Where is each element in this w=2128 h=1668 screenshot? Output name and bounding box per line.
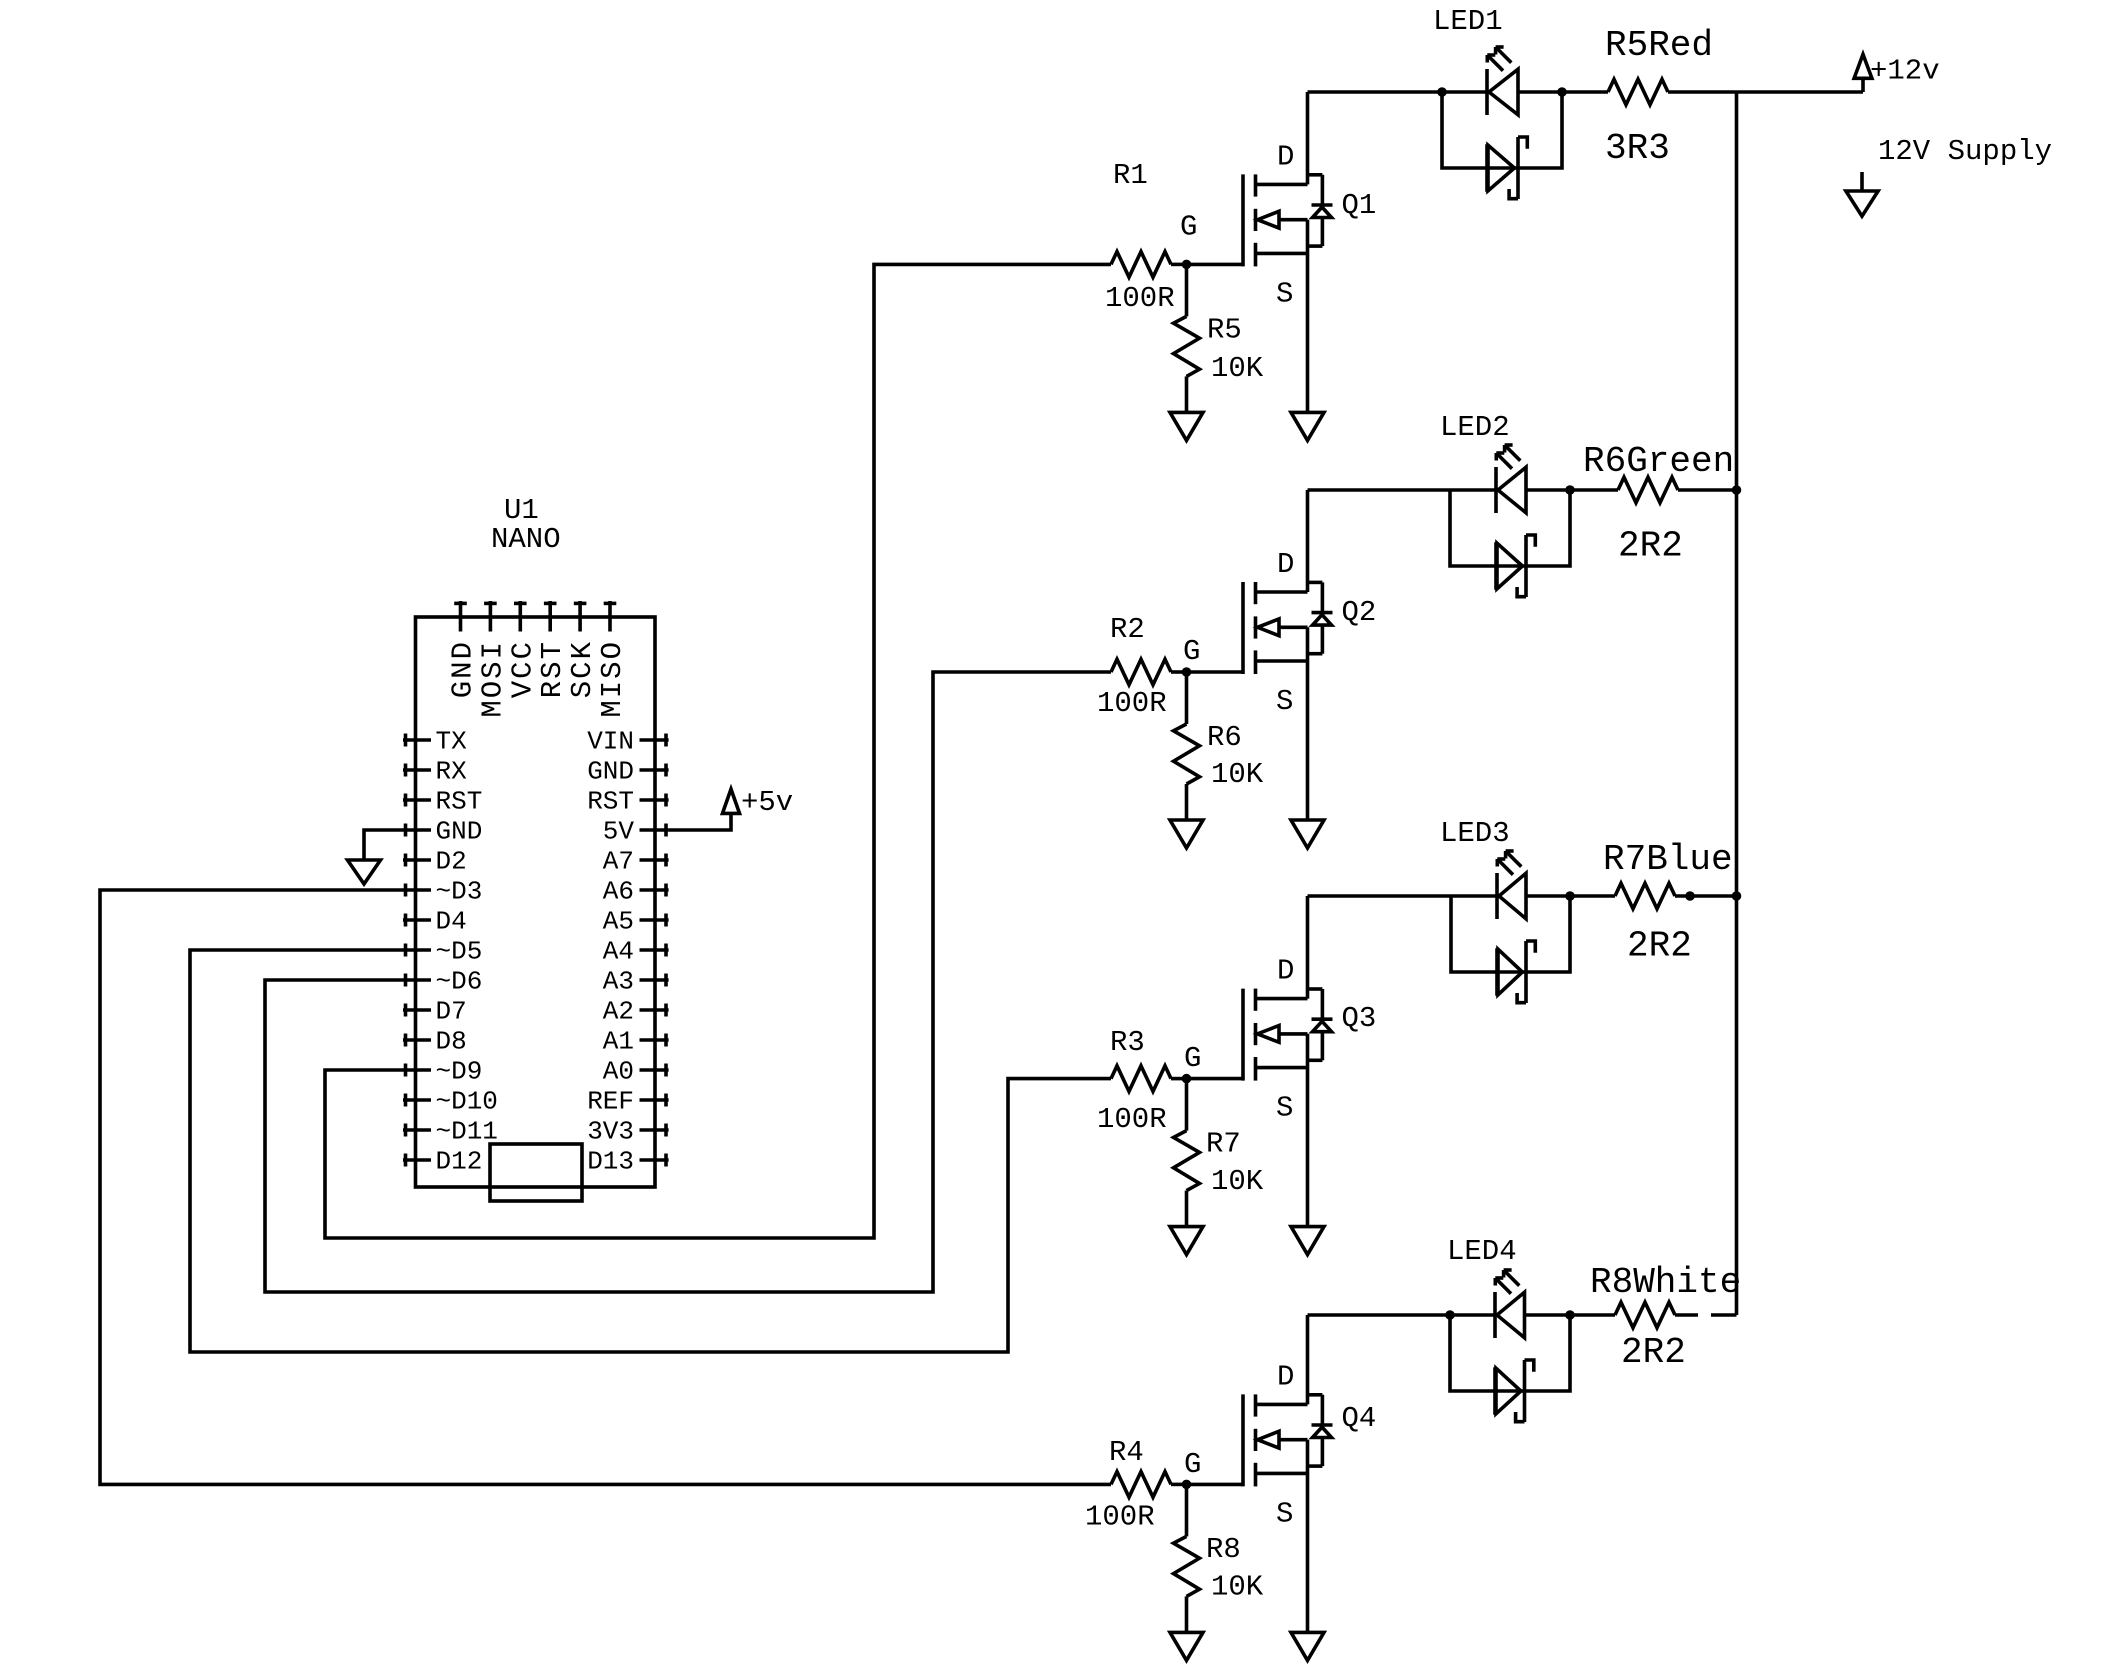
wire Q3 source to ground [1306,1034,1310,1227]
wire LED2 top to right node [1526,488,1570,492]
svg-text:MOSI: MOSI [476,640,509,718]
wire R1 to node G [1171,263,1187,267]
pin MISO (U1 top pin 6) [596,601,629,718]
node (junction at 1690,896) [1685,891,1695,901]
label +5v [741,786,793,819]
wire LED1 loop bottom [1487,166,1518,170]
wire LED3 split to cathode [1451,894,1497,898]
svg-text:A5: A5 [603,907,634,937]
wire LED2 loop left [1450,490,1496,566]
pin D12 (U1 left pin 15) [403,1147,482,1177]
svg-text:D8: D8 [436,1027,467,1057]
resistor R4 100R (gate) [1111,1472,1171,1498]
IC U1 reference label [504,494,539,527]
ground (Q3 source) [1291,1227,1324,1255]
label S (Q1 source) [1276,277,1293,310]
resistor R8 10K (pulldown) [1174,1536,1200,1596]
node (junction at 1450,1315) [1445,1310,1455,1320]
svg-text:G: G [1184,1448,1201,1481]
wire LED4 loop right [1525,1315,1571,1391]
ground (Q2 source) [1291,820,1324,848]
pin ~D3 (U1 left pin 6) [403,877,482,907]
wire LED1 row left [1308,90,1443,94]
wire R4 to node G [1171,1483,1187,1487]
pin SCK (U1 top pin 5) [566,601,599,698]
pin GND (U1 left pin 4) [403,817,482,847]
node (junction at 1570,896) [1565,891,1575,901]
wire LED1 top to right node [1518,90,1562,94]
node (junction at 1736.5,490) [1732,485,1742,495]
svg-text:100R: 100R [1105,282,1175,315]
wire 12V supply ground stub [1860,172,1864,191]
label 100R (R1 value) [1105,282,1175,315]
label R8 [1206,1533,1241,1566]
resistor R6 10K (pulldown) [1174,724,1200,784]
label 100R (R2 value) [1097,687,1167,720]
node (junction at 1562,92) [1557,87,1567,97]
label 10K (R8 value) [1211,1571,1264,1604]
svg-text:SCK: SCK [566,640,599,698]
pin RST (U1 top pin 4) [536,601,569,698]
wire G node to Q1 gate [1187,263,1244,267]
IC U1 NANO body [416,617,656,1187]
wire LED3 row left [1308,894,1452,898]
label 2R2 (R6Green value) [1618,526,1683,567]
resistor R5Red (series) [1608,79,1668,105]
svg-text:D13: D13 [587,1147,634,1177]
pin 3V3 (U1 right pin 14) [587,1117,668,1147]
pin D13 (U1 right pin 15) [587,1147,668,1177]
ground (12V supply) [1846,191,1878,216]
wire LED4 node to R8White [1570,1313,1615,1317]
pin ~D5 (U1 left pin 8) [403,937,482,967]
wire G node down to R7 [1185,1079,1189,1131]
label G (Q1 gate) [1180,210,1197,243]
wire LED3 loop right [1526,896,1570,972]
svg-text:LED1: LED1 [1433,5,1503,38]
resistor R5 10K (pulldown) [1174,316,1200,376]
svg-text:D: D [1277,1360,1294,1393]
wire ~D9 to R1 (net D9) [325,264,1111,1238]
transistor Q4 (N-MOSFET) [1243,1394,1333,1486]
svg-text:R6Green: R6Green [1583,441,1734,482]
svg-text:+5v: +5v [741,786,793,819]
wire R5Red to +12v [1668,90,1863,94]
wire G node to Q2 gate [1187,670,1244,674]
svg-text:A0: A0 [603,1057,634,1087]
svg-text:R7: R7 [1206,1128,1241,1161]
svg-text:3R3: 3R3 [1605,128,1670,169]
transistor Q2 (N-MOSFET) [1243,582,1333,674]
wire LED3 node to R7Blue [1570,894,1615,898]
svg-text:REF: REF [587,1087,634,1117]
wire LED2 loop right [1526,490,1570,566]
svg-text:R7Blue: R7Blue [1603,839,1733,880]
svg-text:NANO: NANO [491,523,561,556]
node G (gate of Q1) [1182,260,1192,270]
wire LED3 loop left [1451,896,1497,972]
svg-text:+12v: +12v [1870,54,1940,87]
label 3R3 (R5Red value) [1605,128,1670,169]
pin ~D10 (U1 left pin 13) [403,1087,498,1117]
label R3 [1110,1026,1145,1059]
IC U1 value label NANO [491,523,561,556]
label G (Q3 gate) [1184,1042,1201,1075]
svg-text:Q2: Q2 [1342,596,1377,629]
label R6 [1207,721,1242,754]
label D (Q4 drain) [1277,1360,1294,1393]
LED LED2B (bottom, reversed) [1496,535,1535,597]
svg-text:GND: GND [436,817,483,847]
wire to +12v arrow [1861,78,1865,92]
wire G node to Q3 gate [1187,1077,1244,1081]
label Q4 [1342,1402,1377,1435]
wire G node down to R6 [1185,672,1189,724]
svg-text:A2: A2 [603,997,634,1027]
pin ~D11 (U1 left pin 14) [403,1117,498,1147]
label R2 [1110,613,1145,646]
pin VCC (U1 top pin 3) [506,601,539,698]
svg-text:A4: A4 [603,937,634,967]
svg-text:R2: R2 [1110,613,1145,646]
svg-text:S: S [1276,1497,1293,1530]
node (junction at 1442,92) [1437,87,1447,97]
svg-text:~D10: ~D10 [436,1087,498,1117]
svg-text:~D3: ~D3 [436,877,483,907]
pin RST (U1 left pin 3) [403,787,482,817]
label R4 [1109,1436,1144,1469]
svg-text:RST: RST [587,787,634,817]
svg-text:R1: R1 [1113,159,1148,192]
svg-text:R8: R8 [1206,1533,1241,1566]
wire LED2 split to cathode [1450,488,1496,492]
wire U1 5V pin to +5v [669,813,731,830]
svg-text:10K: 10K [1211,1571,1264,1604]
wire Q4 source to ground [1306,1440,1310,1633]
svg-text:LED4: LED4 [1447,1235,1517,1268]
label 100R (R4 value) [1085,1501,1155,1534]
svg-text:D: D [1277,548,1294,581]
pin GND (U1 top pin 1) [447,601,480,698]
svg-text:A7: A7 [603,847,634,877]
svg-text:~D11: ~D11 [436,1117,498,1147]
svg-text:S: S [1276,1092,1293,1125]
resistor R8White (series) [1615,1302,1675,1328]
ground (R7) [1170,1227,1203,1255]
wire Q1 source to ground [1306,220,1310,413]
svg-text:5V: 5V [603,817,635,847]
wire R8 to ground [1185,1596,1189,1632]
svg-text:RX: RX [436,757,468,787]
node (junction at 1736.5,896) [1732,891,1742,901]
label LED4 [1447,1235,1517,1268]
wire Q4 drain up to LED4 row [1306,1315,1310,1404]
label D (Q1 drain) [1277,140,1294,173]
wire LED4 split to cathode [1450,1313,1495,1317]
wire U1 GND pin to ground [364,830,403,860]
svg-text:3V3: 3V3 [587,1117,634,1147]
svg-text:VIN: VIN [587,727,634,757]
pin A4 (U1 right pin 8) [603,937,669,967]
svg-text:R8White: R8White [1590,1262,1741,1303]
svg-text:10K: 10K [1211,352,1264,385]
label R8White [1590,1262,1741,1303]
LED LED4A (top, cathode left) [1495,1270,1525,1338]
svg-text:10K: 10K [1211,1165,1264,1198]
svg-text:~D9: ~D9 [436,1057,483,1087]
label R7Blue [1603,839,1733,880]
pin A0 (U1 right pin 12) [603,1057,669,1087]
LED LED2A (top, cathode left) [1496,445,1526,513]
svg-text:G: G [1183,635,1200,668]
label 10K (R6 value) [1211,758,1264,791]
svg-text:R3: R3 [1110,1026,1145,1059]
label R6Green [1583,441,1734,482]
label +12v [1870,54,1940,87]
pin MOSI (U1 top pin 2) [476,601,509,718]
wire +12v bus vertical [1735,92,1739,1315]
wire LED1 node to R5Red [1562,90,1608,94]
svg-text:S: S [1276,685,1293,718]
svg-text:MISO: MISO [596,640,629,718]
wire R6 to ground [1185,784,1189,820]
pin VIN (U1 right pin 1) [587,727,668,757]
wire G node down to R5 [1185,264,1189,316]
wire LED1 loop left [1442,92,1487,168]
wire ~D5 to R3 (net D5) [190,950,1111,1352]
svg-text:100R: 100R [1085,1501,1155,1534]
svg-text:100R: 100R [1097,1103,1167,1136]
pin D7 (U1 left pin 10) [403,997,467,1027]
label 100R (R3 value) [1097,1103,1167,1136]
wire Q2 drain up to LED2 row [1306,490,1310,592]
IC U1 USB connector rectangle [490,1144,582,1201]
pin A3 (U1 right pin 9) [603,967,669,997]
transistor Q1 (N-MOSFET) [1243,174,1333,266]
label R5 [1207,314,1242,347]
ground (R6) [1170,820,1203,848]
label Q2 [1342,596,1377,629]
resistor R6Green (series) [1618,477,1678,503]
label 10K (R5 value) [1211,352,1264,385]
svg-text:Q3: Q3 [1342,1002,1377,1035]
svg-text:D7: D7 [436,997,467,1027]
label Q3 [1342,1002,1377,1035]
label G (Q4 gate) [1184,1448,1201,1481]
svg-text:S: S [1276,277,1293,310]
svg-text:G: G [1180,210,1197,243]
wire G node down to R8 [1185,1484,1189,1536]
wire LED3 loop bottom [1497,970,1526,974]
label 12V Supply [1878,135,2052,168]
label D (Q2 drain) [1277,548,1294,581]
pin 5V (U1 right pin 4) [603,817,669,847]
svg-text:VCC: VCC [506,640,539,698]
svg-text:R4: R4 [1109,1436,1144,1469]
pin GND (U1 right pin 2) [587,757,668,787]
svg-text:GND: GND [587,757,634,787]
pin D8 (U1 left pin 11) [403,1027,467,1057]
LED LED1A (top, cathode left) [1487,47,1518,115]
LED LED1B (bottom, reversed) [1487,137,1527,199]
svg-text:A3: A3 [603,967,634,997]
wire LED4 row left [1308,1313,1451,1317]
ground (Q4 source) [1291,1632,1324,1660]
label S (Q2 source) [1276,685,1293,718]
ground (R5) [1170,412,1203,440]
svg-text:12V Supply: 12V Supply [1878,135,2052,168]
svg-text:G: G [1184,1042,1201,1075]
wire LED1 split to cathode [1442,90,1487,94]
label R1 [1113,159,1148,192]
resistor R2 100R (gate) [1111,659,1171,685]
wire LED4 loop left [1450,1315,1495,1391]
label D (Q3 drain) [1277,955,1294,988]
wire LED4 loop bottom [1495,1389,1525,1393]
svg-text:2R2: 2R2 [1627,926,1692,967]
wire ~D6 to R2 (net D6) [265,672,1111,1292]
resistor R1 100R (gate) [1111,252,1171,278]
label R7 [1206,1128,1241,1161]
svg-text:RST: RST [436,787,483,817]
svg-text:D: D [1277,140,1294,173]
LED LED4B (bottom, reversed) [1495,1360,1534,1422]
pin A7 (U1 right pin 5) [603,847,669,877]
wire LED4 top to right node [1525,1313,1571,1317]
node G (gate of Q4) [1182,1480,1192,1490]
pin ~D6 (U1 left pin 9) [403,967,482,997]
wire LED2 node to R6Green [1570,488,1618,492]
wire LED1 loop right [1518,92,1562,168]
pin A5 (U1 right pin 7) [603,907,669,937]
pin A2 (U1 right pin 10) [603,997,669,1027]
pin TX (U1 left pin 1) [403,727,467,757]
wire G node to Q4 gate [1187,1483,1244,1487]
svg-text:TX: TX [436,727,468,757]
pin REF (U1 right pin 13) [587,1087,668,1117]
wire LED3 top to right node [1526,894,1570,898]
pin RST (U1 right pin 3) [587,787,668,817]
node (junction at 1570,490) [1565,485,1575,495]
label S (Q3 source) [1276,1092,1293,1125]
svg-text:D12: D12 [436,1147,483,1177]
wire R7 to ground [1185,1191,1189,1227]
wire R3 to node G [1171,1077,1187,1081]
node G (gate of Q3) [1182,1074,1192,1084]
pin D4 (U1 left pin 7) [403,907,467,937]
power +12v arrow [1854,54,1872,78]
svg-text:D2: D2 [436,847,467,877]
wire R8White to bus (with gap) [1675,1313,1737,1317]
ground (Q1 source) [1291,412,1324,440]
label 10K (R7 value) [1211,1165,1264,1198]
ground (R8) [1170,1632,1203,1660]
wire R6Green to bus [1678,488,1737,492]
LED LED3B (bottom, reversed) [1497,941,1535,1003]
svg-text:100R: 100R [1097,687,1167,720]
resistor R3 100R (gate) [1111,1066,1171,1092]
wire R2 to node G [1171,670,1187,674]
label G (Q2 gate) [1183,635,1200,668]
node (junction at 1570,1315) [1565,1310,1575,1320]
wire Q1 drain up to LED1 row [1306,92,1310,184]
LED LED3A (top, cathode left) [1497,851,1526,919]
node G (gate of Q2) [1182,667,1192,677]
svg-text:~D5: ~D5 [436,937,483,967]
wire Q3 drain up to LED3 row [1306,896,1310,999]
ground (U1 GND) [348,860,381,884]
wire Q2 source to ground [1306,627,1310,820]
svg-text:RST: RST [536,640,569,698]
pin ~D9 (U1 left pin 12) [403,1057,482,1087]
power +5v arrow [722,789,739,813]
svg-text:~D6: ~D6 [436,967,483,997]
label LED1 [1433,5,1503,38]
wire R5 to ground [1185,376,1189,412]
wire ~D3 to R4 (net D3) [100,890,1111,1484]
label S (Q4 source) [1276,1497,1293,1530]
wire LED2 loop bottom [1496,564,1526,568]
label R5Red [1605,25,1713,66]
wire R7Blue to bus [1675,894,1737,898]
svg-text:R5: R5 [1207,314,1242,347]
svg-text:2R2: 2R2 [1618,526,1683,567]
svg-text:R6: R6 [1207,721,1242,754]
pin A1 (U1 right pin 11) [603,1027,669,1057]
svg-text:GND: GND [447,640,480,698]
pin A6 (U1 right pin 6) [603,877,669,907]
label 2R2 (R7Blue value) [1627,926,1692,967]
svg-text:D: D [1277,955,1294,988]
svg-text:R5Red: R5Red [1605,25,1713,66]
pin RX (U1 left pin 2) [403,757,467,787]
svg-text:2R2: 2R2 [1621,1332,1686,1373]
label LED3 [1440,817,1510,850]
svg-text:LED3: LED3 [1440,817,1510,850]
resistor R7Blue (series) [1615,883,1675,909]
svg-text:D4: D4 [436,907,467,937]
pin D2 (U1 left pin 5) [403,847,467,877]
resistor R7 10K (pulldown) [1174,1131,1200,1191]
transistor Q3 (N-MOSFET) [1243,989,1333,1081]
label LED2 [1440,411,1510,444]
svg-text:A6: A6 [603,877,634,907]
svg-text:10K: 10K [1211,758,1264,791]
label 2R2 (R8White value) [1621,1332,1686,1373]
svg-text:Q1: Q1 [1342,189,1377,222]
label Q1 [1342,189,1377,222]
svg-text:LED2: LED2 [1440,411,1510,444]
svg-text:A1: A1 [603,1027,634,1057]
svg-text:Q4: Q4 [1342,1402,1377,1435]
wire LED2 row left [1308,488,1451,492]
